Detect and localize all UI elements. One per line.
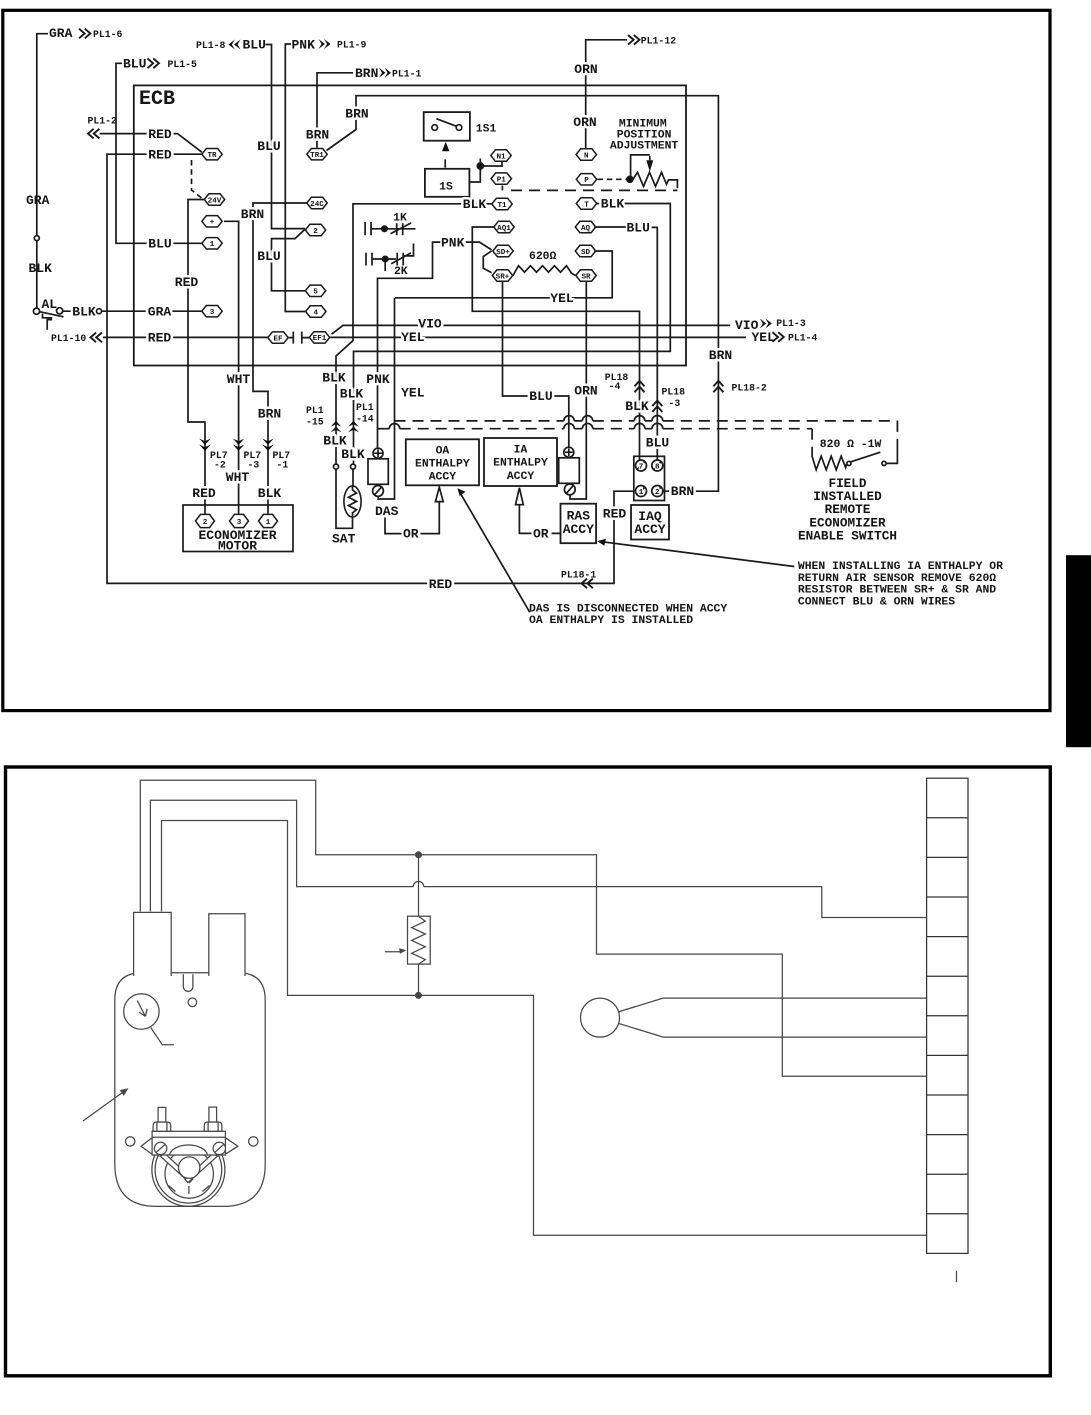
enable switch contact left: [847, 461, 851, 465]
svg-text:8: 8: [655, 464, 660, 472]
wire T BLK to SAT right leg: [354, 204, 671, 464]
svg-text:AQ1: AQ1: [497, 225, 511, 233]
hop over resistor wire: [413, 881, 423, 886]
dashed wire P to potentiometer: [598, 178, 627, 180]
wire RED from TR down-around to terminal 1 of block: [107, 154, 634, 583]
wire terminal 5 branch: [272, 229, 306, 291]
svg-text:RED: RED: [148, 331, 172, 346]
wire BRN TR1 to block terminal 2: [327, 96, 719, 492]
svg-text:SR: SR: [581, 273, 591, 281]
svg-text:YEL: YEL: [401, 385, 425, 400]
thermistor SAT resistor zigzag: [349, 487, 357, 516]
svg-text:TR1: TR1: [310, 152, 324, 160]
svg-text:ENTHALPY: ENTHALPY: [493, 458, 548, 470]
connector arrow PL1-8 left: [229, 40, 241, 50]
svg-text:YEL: YEL: [550, 291, 574, 306]
switch AL contact left: [33, 308, 39, 314]
svg-text:24C: 24C: [310, 201, 324, 209]
svg-text:ORN: ORN: [573, 115, 596, 130]
svg-text:5: 5: [313, 289, 318, 297]
box IAQ ACCY: [631, 505, 669, 540]
svg-text:1K: 1K: [393, 212, 407, 224]
svg-text:PL1-9: PL1-9: [337, 40, 367, 51]
wire SD YEL to DAS: [378, 251, 612, 499]
terminal 24V: [204, 194, 224, 206]
svg-text:GRA: GRA: [26, 193, 50, 208]
capacitor EF-EF1: [289, 332, 309, 344]
terminal strip divider 4: [927, 936, 968, 938]
splice circle BLK: [97, 309, 102, 314]
svg-text:PL1-4: PL1-4: [788, 332, 818, 343]
connector arrow PL18-2: [713, 381, 723, 392]
wire ORN PL1-12 to terminal N: [586, 40, 627, 149]
terminal strip divider 6: [927, 1015, 968, 1017]
potentiometer wiper arrow: [646, 160, 653, 171]
svg-text:BLU: BLU: [627, 221, 650, 236]
actuator dial arrow: [137, 1001, 147, 1017]
switch AL trip linkage: [43, 314, 52, 330]
svg-text:PL1: PL1: [306, 405, 324, 416]
svg-text:PL1-3: PL1-3: [776, 318, 806, 329]
connector arrow PL1-14: [348, 421, 359, 433]
junction dot resistor top: [416, 852, 422, 858]
switch AL contact right: [57, 308, 63, 314]
pump screw right: [213, 1142, 225, 1154]
terminal 1: [202, 238, 222, 250]
svg-text:BLU: BLU: [646, 436, 669, 451]
svg-text:BLK: BLK: [322, 371, 346, 386]
wire PNK to SD+ and SR+: [378, 242, 492, 448]
wire 1S to N1: [469, 159, 502, 183]
crank arm lower to strip 7: [618, 1023, 926, 1037]
actuator arrow under 1S1: [442, 142, 449, 151]
svg-text:BLU: BLU: [243, 38, 266, 53]
svg-text:DAS: DAS: [375, 504, 399, 519]
terminal SD+: [493, 245, 513, 256]
dashed wire upper to enable switch: [395, 420, 898, 422]
svg-text:3: 3: [237, 519, 242, 527]
svg-text:ACCY: ACCY: [429, 472, 457, 484]
svg-text:-1: -1: [277, 460, 289, 471]
terminal strip divider 7: [927, 1054, 968, 1056]
svg-text:EF: EF: [273, 335, 283, 343]
terminal SR+: [492, 270, 512, 282]
svg-text:1S: 1S: [439, 181, 453, 193]
switch AL blade: [40, 312, 64, 317]
sensor DAS body: [368, 459, 388, 485]
pump wheel second rim: [155, 1137, 222, 1204]
motor terminal 3: [230, 514, 249, 527]
hop lower dashed 2: [582, 423, 593, 428]
wire resistor branch: [418, 858, 420, 993]
svg-text:GRA: GRA: [49, 26, 73, 41]
hop lower dashed 1: [564, 423, 575, 428]
wire OR link IA to RAS: [519, 505, 560, 534]
svg-text:4: 4: [314, 309, 319, 317]
accessory arrow IA: [516, 488, 524, 505]
accessory arrow OA: [435, 487, 443, 501]
actuator small hole: [188, 998, 197, 1007]
connector arrow PL7-2: [199, 439, 211, 451]
svg-text:RETURN AIR SENSOR REMOVE 620Ω: RETURN AIR SENSOR REMOVE 620Ω: [798, 573, 996, 585]
svg-text:BLK: BLK: [29, 261, 53, 276]
resistor vertical: [408, 916, 431, 964]
svg-text:1: 1: [639, 489, 644, 497]
connector arrow PL1-10: [91, 333, 102, 343]
terminal 5: [305, 285, 325, 297]
sensor RAS plus terminal: [564, 447, 574, 457]
terminal N1: [491, 150, 511, 162]
svg-text:BLU: BLU: [529, 389, 552, 404]
pump nipple left: [158, 1107, 166, 1122]
connector arrow PL18-3: [652, 401, 662, 412]
svg-text:BRN: BRN: [671, 484, 694, 499]
connector arrow PL18-4: [635, 381, 645, 392]
svg-text:P1: P1: [497, 176, 507, 184]
svg-text:WHT: WHT: [227, 372, 251, 387]
terminal T: [576, 198, 596, 210]
svg-text:BLK: BLK: [341, 447, 365, 462]
switch 1S1 contact left: [432, 125, 438, 131]
svg-text:-4: -4: [609, 381, 621, 392]
terminal 3: [202, 306, 222, 318]
svg-text:TR: TR: [207, 152, 217, 160]
svg-text:OR: OR: [533, 526, 549, 541]
junction dot potentiometer: [627, 176, 633, 182]
pump vertex tick: [188, 1186, 190, 1194]
svg-text:ECB: ECB: [139, 88, 175, 111]
wire BLK below splice: [36, 241, 38, 308]
wire GRA to PL1-6: [37, 34, 48, 236]
pump wing left: [141, 1138, 152, 1154]
wire stub above 1S: [444, 159, 446, 167]
svg-text:2: 2: [203, 519, 208, 527]
svg-text:RESISTOR BETWEEN SR+ & SR AND: RESISTOR BETWEEN SR+ & SR AND: [798, 585, 996, 597]
wire OR link DAS: [385, 502, 439, 533]
wire YEL to PL1-4: [330, 336, 746, 338]
svg-text:ORN: ORN: [574, 384, 597, 399]
pump wheel outer rim: [152, 1133, 225, 1206]
terminal strip: [927, 778, 968, 1253]
pump wedge tick right: [203, 1186, 210, 1192]
arrow pointing at resistor: [385, 951, 402, 953]
economizer motor box: [183, 505, 293, 552]
svg-text:RED: RED: [192, 486, 216, 501]
connector arrow PL1-15: [331, 421, 342, 433]
svg-text:BLU: BLU: [148, 237, 171, 252]
actuator leader arrow: [83, 1092, 124, 1121]
enable switch contact right: [882, 461, 886, 465]
svg-text:OA: OA: [436, 445, 450, 457]
svg-text:BLK: BLK: [625, 399, 649, 414]
svg-text:EF1: EF1: [313, 335, 327, 343]
pump wheel top bump: [170, 1145, 208, 1155]
connector arrow PL1-12: [628, 35, 639, 45]
svg-text:1: 1: [210, 241, 215, 249]
svg-text:24V: 24V: [208, 197, 222, 205]
terminal strip divider 9: [927, 1134, 968, 1136]
svg-text:2: 2: [655, 489, 660, 497]
sensor DAS plus terminal: [373, 448, 383, 458]
wire into SAT top: [352, 469, 354, 487]
wire BLK T1 to SAT: [336, 204, 492, 464]
svg-text:PL1-10: PL1-10: [51, 333, 86, 344]
terminal EF1: [309, 332, 329, 344]
wire GRA to terminal 3: [102, 310, 202, 312]
wire SR+ BLU to RAS sensor: [503, 282, 569, 448]
box OA ENTHALPY ACCY: [406, 439, 479, 485]
svg-text:1S1: 1S1: [476, 124, 497, 136]
svg-text:BRN: BRN: [709, 348, 732, 363]
terminal EF: [268, 332, 288, 344]
svg-text:ADJUSTMENT: ADJUSTMENT: [610, 140, 679, 152]
svg-text:AL: AL: [42, 297, 58, 312]
box IA ENTHALPY ACCY: [484, 438, 557, 486]
sensor 1S box: [425, 169, 470, 197]
svg-text:PL1-8: PL1-8: [196, 40, 226, 51]
svg-text:2K: 2K: [394, 266, 408, 278]
note arrow to OA box: [460, 492, 530, 612]
junction dot 1S N1: [477, 163, 483, 169]
svg-text:820 Ω -1W: 820 Ω -1W: [820, 439, 882, 451]
motor terminal 2: [196, 514, 215, 527]
connector arrow PL1-3: [760, 319, 772, 329]
wire BRN PL1-1 stub: [317, 73, 353, 148]
svg-text:PL1: PL1: [356, 402, 374, 413]
terminal TR1: [307, 149, 327, 161]
connector arrow PL1-2: [88, 129, 99, 139]
connector arrow PL1-1: [379, 68, 391, 78]
svg-text:PL1-1: PL1-1: [392, 69, 422, 80]
svg-text:OR: OR: [403, 527, 419, 542]
terminal strip divider 5: [927, 975, 968, 977]
svg-text:ENABLE SWITCH: ENABLE SWITCH: [798, 529, 897, 544]
pump wedge tick left: [169, 1186, 176, 1192]
pump nipple right: [209, 1107, 217, 1122]
svg-text:N: N: [584, 152, 589, 160]
connector arrow PL1-6: [79, 29, 90, 39]
wire AL to BLK splice: [63, 310, 97, 312]
dashed wire lower to resistor: [400, 428, 812, 430]
wire switch to dashed: [886, 446, 897, 463]
svg-text:SD+: SD+: [496, 249, 510, 257]
svg-text:RED: RED: [148, 127, 172, 142]
wire actuator 2 to terminal strip 4 with hop: [150, 800, 926, 917]
svg-text:MOTOR: MOTOR: [218, 539, 257, 554]
wire VIO to PL1-3: [332, 325, 731, 334]
terminal strip divider 11: [927, 1213, 968, 1215]
pump chamber circle: [165, 1150, 213, 1198]
svg-text:YEL: YEL: [752, 330, 776, 345]
svg-text:PL18-2: PL18-2: [732, 382, 767, 393]
svg-text:-14: -14: [356, 414, 374, 425]
hop upper dashed 4: [652, 415, 663, 420]
splice circle on GRA wire: [34, 236, 39, 241]
sensor RAS body: [559, 458, 580, 484]
pump wing right: [225, 1138, 238, 1154]
hop lower dashed 4: [652, 423, 663, 428]
hop upper dashed 3: [634, 416, 645, 421]
svg-text:ACCY: ACCY: [634, 522, 665, 537]
block terminal 8: [652, 460, 663, 472]
svg-text:1: 1: [266, 519, 271, 527]
svg-text:PL18: PL18: [662, 387, 686, 398]
terminal TR: [202, 149, 222, 161]
svg-text:7: 7: [639, 464, 644, 472]
terminal strip divider 10: [927, 1173, 968, 1175]
terminal plus: [202, 216, 222, 228]
svg-text:CONNECT BLU & ORN WIRES: CONNECT BLU & ORN WIRES: [798, 596, 955, 608]
svg-text:IA: IA: [514, 445, 528, 457]
wire 24V to RED vertical: [188, 200, 205, 514]
svg-text:BLK: BLK: [258, 486, 282, 501]
trimmer capacitor 1K: [365, 222, 415, 235]
switch 1S1 box: [424, 112, 470, 141]
wire plus to motor terminal 3: [224, 221, 239, 513]
dashed drop to switch: [896, 421, 898, 446]
resistor 620 ohm: [513, 266, 576, 276]
svg-text:BLU: BLU: [257, 249, 280, 264]
svg-text:PNK: PNK: [441, 235, 465, 250]
svg-text:BRN: BRN: [345, 106, 368, 121]
ECB board outline: [134, 85, 686, 365]
actuator conduit left: [134, 912, 172, 976]
dashed link TR to 24V: [192, 160, 203, 199]
svg-text:WHT: WHT: [226, 470, 250, 485]
enable switch blade: [851, 452, 881, 462]
junction dot resistor bottom: [416, 993, 422, 999]
terminal strip divider 8: [927, 1094, 968, 1096]
junction dot 2K with stem: [383, 256, 388, 261]
splice circle SAT right: [351, 464, 356, 469]
terminal AQ: [575, 221, 595, 233]
dashed wire P1 to potentiometer end: [501, 186, 503, 191]
svg-text:YEL: YEL: [401, 330, 425, 345]
box RAS ACCY: [561, 504, 597, 544]
motor terminal 1: [259, 514, 278, 527]
wire BLU PL1-8 to terminal 2: [266, 45, 306, 229]
svg-text:BLK: BLK: [72, 304, 96, 319]
actuator mount hole right: [249, 1137, 258, 1146]
svg-text:GRA: GRA: [148, 304, 172, 319]
svg-text:BLU: BLU: [257, 139, 280, 154]
svg-text:ENTHALPY: ENTHALPY: [415, 458, 470, 470]
terminal strip divider 1: [927, 817, 968, 819]
pump nut right: [204, 1122, 222, 1131]
actuator dial leader: [151, 1028, 174, 1045]
svg-text:BLK: BLK: [340, 387, 364, 402]
wire AQ BLU to block terminal 8: [594, 227, 657, 460]
svg-text:2: 2: [313, 228, 318, 236]
svg-text:SD: SD: [581, 249, 591, 257]
wire SAT left leg: [336, 469, 353, 528]
resistor 820 ohm: [812, 453, 847, 470]
svg-text:SAT: SAT: [332, 532, 356, 547]
hop lower dashed 3: [634, 423, 645, 428]
svg-text:-2: -2: [214, 460, 226, 471]
svg-text:ACCY: ACCY: [507, 471, 535, 483]
crank circle: [581, 998, 620, 1037]
svg-text:PL18-1: PL18-1: [561, 569, 596, 580]
svg-text:RED: RED: [603, 506, 627, 521]
svg-text:-15: -15: [306, 417, 324, 428]
svg-text:+: +: [210, 219, 215, 227]
wire RED to PL1-2: [100, 134, 202, 153]
connector arrow PL7-3: [233, 439, 245, 451]
svg-text:BRN: BRN: [306, 127, 329, 142]
trimmer capacitor 2K: [366, 244, 414, 266]
tick below strip: [956, 1271, 958, 1282]
svg-text:BRN: BRN: [258, 407, 281, 422]
sensor RAS minus terminal: [564, 484, 575, 495]
wire PNK tap with hop: [378, 428, 390, 430]
svg-text:BLU: BLU: [123, 57, 146, 72]
terminal strip divider 2: [927, 856, 968, 858]
hop upper dashed 1: [564, 416, 575, 421]
block terminal 2: [652, 486, 663, 498]
thermistor SAT: [344, 486, 361, 517]
wire SR ORN to RAS sensor: [570, 282, 586, 499]
dashed drop to resistor 820: [811, 429, 813, 453]
crank arm upper to strip 6: [618, 998, 926, 1012]
hop upper dashed 2: [582, 416, 593, 421]
actuator mount hole left: [126, 1137, 135, 1146]
block terminal 7: [636, 460, 647, 472]
terminal 24C: [307, 197, 327, 209]
block terminal 1: [636, 486, 647, 498]
svg-text:BRN: BRN: [355, 66, 378, 81]
svg-text:PNK: PNK: [292, 38, 316, 53]
actuator conduit right: [209, 914, 245, 976]
svg-text:SR+: SR+: [496, 273, 510, 281]
actuator body: [115, 973, 265, 1207]
switch 1S1 blade: [436, 119, 456, 127]
connector arrow PL1-9: [319, 39, 331, 49]
pump manifold plate: [152, 1131, 225, 1155]
note arrow to RAS box: [602, 542, 795, 567]
pump hub: [179, 1157, 200, 1178]
svg-text:PNK: PNK: [366, 372, 390, 387]
svg-text:DAS IS DISCONNECTED WHEN ACCY: DAS IS DISCONNECTED WHEN ACCY: [529, 603, 727, 615]
svg-text:T: T: [584, 201, 589, 209]
terminal P: [576, 174, 596, 186]
svg-text:WHEN INSTALLING IA ENTHALPY OR: WHEN INSTALLING IA ENTHALPY OR: [798, 561, 1003, 573]
wire PNK PL1-9 to terminal 4: [285, 44, 305, 312]
pump vee arm left: [160, 1153, 192, 1182]
terminal strip divider 3: [927, 896, 968, 898]
actuator top notch: [183, 974, 193, 991]
svg-text:PL1-6: PL1-6: [93, 29, 123, 40]
svg-text:N1: N1: [496, 153, 506, 161]
svg-text:T1: T1: [497, 202, 507, 210]
svg-text:RED: RED: [429, 577, 453, 592]
terminal SR: [576, 270, 596, 282]
svg-text:OA ENTHALPY IS INSTALLED: OA ENTHALPY IS INSTALLED: [529, 615, 693, 627]
pump vee arm right: [185, 1153, 217, 1182]
connector arrow PL1-5: [148, 59, 159, 69]
wire 24C BRN to motor terminal 1: [253, 203, 307, 514]
terminal N: [576, 149, 596, 161]
pump nut left: [153, 1122, 171, 1131]
potentiometer resistor: [633, 172, 677, 188]
svg-text:RED: RED: [148, 147, 172, 162]
svg-text:ACCY: ACCY: [563, 522, 594, 537]
wire actuator 1 to terminal strip 8: [140, 780, 926, 1076]
junction dot 1K: [382, 226, 387, 231]
terminal 4: [306, 306, 326, 318]
terminal P1: [491, 173, 511, 185]
svg-text:P: P: [584, 177, 589, 185]
